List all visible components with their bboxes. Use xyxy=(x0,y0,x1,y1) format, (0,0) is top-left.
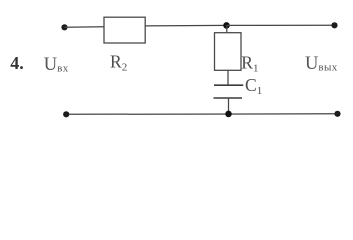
wire R1 to C1 xyxy=(227,70,229,85)
label U_vyx (output voltage) xyxy=(305,54,338,74)
svg-text:4.: 4. xyxy=(10,53,23,73)
terminal input top xyxy=(61,24,67,30)
svg-text:Uвых: Uвых xyxy=(305,54,338,74)
wire C1 to bottom rail xyxy=(228,98,230,114)
label R1 value xyxy=(241,52,258,74)
svg-text:C1: C1 xyxy=(245,75,262,97)
junction bottom node xyxy=(225,111,232,118)
terminal output bottom xyxy=(334,111,340,117)
bottom rail wire xyxy=(66,113,337,116)
terminal output top xyxy=(331,22,337,28)
item number 4. xyxy=(10,53,23,73)
label C1 value xyxy=(245,75,262,97)
wire input to R2 xyxy=(65,26,105,29)
svg-text:Uвх: Uвх xyxy=(44,55,69,75)
resistor R1 xyxy=(215,33,242,71)
terminal input bottom xyxy=(63,111,69,117)
label R2 value xyxy=(110,51,127,73)
wire node A to R1 xyxy=(226,25,228,32)
wire R2 to node A xyxy=(145,24,226,27)
node A junction xyxy=(223,22,230,29)
resistor R2 xyxy=(104,17,145,43)
capacitor C1 bottom plate xyxy=(214,97,243,99)
wire node A to output terminal xyxy=(227,24,335,26)
svg-text:R2: R2 xyxy=(110,51,127,73)
capacitor C1 top plate xyxy=(214,84,243,86)
svg-text:R1: R1 xyxy=(241,52,258,74)
label U_vx (input voltage) xyxy=(44,55,69,75)
